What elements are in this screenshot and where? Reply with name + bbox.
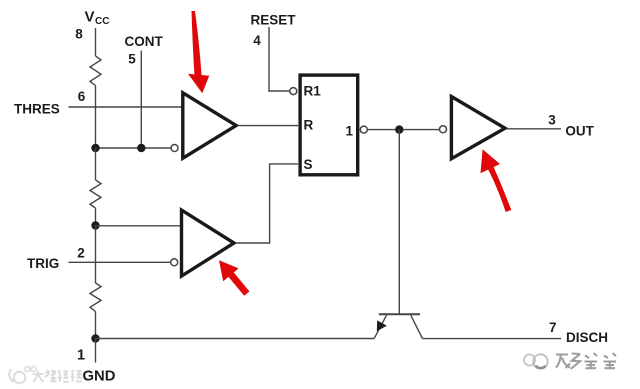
resistor R1	[90, 56, 101, 86]
resistor R2	[90, 180, 101, 208]
wire node A to R2	[95, 148, 97, 180]
transistor Q1 emitter	[374, 315, 386, 338]
transistor Q1 emitter arrow	[377, 320, 387, 331]
svg-text:6: 6	[78, 89, 86, 104]
svg-text:S: S	[304, 157, 313, 172]
comparator U1	[183, 93, 236, 158]
GND node junction dot	[91, 334, 99, 342]
svg-text:5: 5	[128, 52, 136, 67]
wire comparator 2 output	[236, 164, 298, 243]
red arrow 1 (upper comparator)	[188, 11, 209, 93]
node A junction dot	[91, 144, 99, 152]
wire OUT	[507, 128, 561, 130]
wire R3 to GND node	[95, 312, 97, 339]
svg-text:7: 7	[549, 320, 557, 335]
svg-text:DISCH: DISCH	[566, 330, 608, 345]
svg-text:8: 8	[75, 27, 83, 42]
red arrow 2 (lower comparator)	[219, 260, 249, 296]
VCC label	[85, 9, 110, 28]
wire latch output to buffer	[367, 129, 440, 131]
wire comparator 1 output to latch R	[238, 125, 298, 127]
watermark left text	[33, 370, 83, 382]
transistor Q1 base bar	[379, 313, 420, 315]
wire GND stub	[95, 339, 97, 363]
comparator U2	[182, 210, 235, 276]
wire node A to comparator 1 inverting input	[96, 147, 172, 149]
comparator 1 inverting bubble	[171, 145, 178, 152]
svg-text:V: V	[85, 9, 95, 26]
node C junction dot	[395, 125, 403, 133]
svg-text:CONT: CONT	[125, 34, 164, 49]
wire Vcc vertical top	[95, 28, 97, 56]
wire node B to comparator 2 noninverting input	[96, 225, 182, 227]
wire R2 to node B	[95, 208, 97, 226]
svg-text:R1: R1	[304, 84, 322, 99]
svg-text:TRIG: TRIG	[27, 256, 59, 271]
watermark right text	[556, 353, 616, 369]
buffer U4	[451, 97, 505, 159]
latch R1 input bubble	[290, 88, 297, 95]
wire node C to transistor base	[398, 130, 400, 314]
latch output bubble	[360, 126, 367, 133]
svg-text:4: 4	[253, 33, 261, 48]
svg-text:1: 1	[345, 124, 353, 139]
wire node B to R3	[95, 226, 97, 284]
node B junction dot	[91, 221, 99, 229]
transistor Q1 collector	[411, 315, 423, 338]
watermark left logo	[9, 367, 36, 384]
svg-text:THRES: THRES	[14, 102, 60, 117]
svg-text:2: 2	[77, 246, 85, 261]
wire ground rail	[96, 338, 375, 340]
wire R1 to node A	[95, 86, 97, 149]
wire CONT vertical	[140, 51, 142, 149]
svg-text:GND: GND	[83, 369, 116, 385]
svg-text:1: 1	[77, 347, 85, 363]
wire THRES	[69, 106, 183, 108]
node CONT junction dot	[137, 144, 145, 152]
svg-text:RESET: RESET	[251, 12, 297, 27]
svg-text:R: R	[304, 118, 314, 133]
svg-text:CC: CC	[95, 16, 109, 27]
wire RESET	[269, 27, 290, 91]
svg-text:3: 3	[548, 112, 556, 127]
svg-text:OUT: OUT	[565, 124, 594, 139]
buffer input bubble	[440, 126, 447, 133]
wire TRIG	[69, 261, 172, 263]
latch U3	[300, 75, 358, 175]
watermark right logo	[524, 354, 548, 368]
red arrow 3 (output buffer)	[481, 149, 512, 212]
comparator 2 inverting bubble	[171, 259, 178, 266]
resistor R3	[90, 283, 101, 312]
wire DISCH	[422, 338, 561, 340]
